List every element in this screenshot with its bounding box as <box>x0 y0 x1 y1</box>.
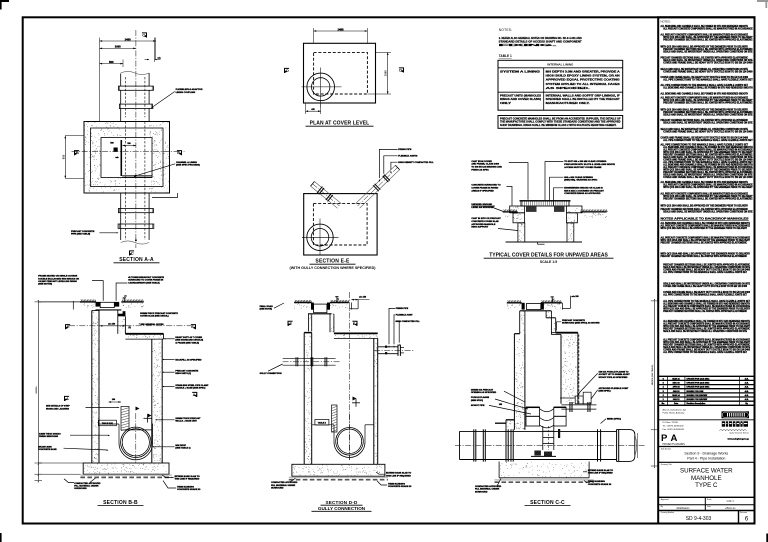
svg-text:WITH QCS 2014 AND SHALL BE APP: WITH QCS 2014 AND SHALL BE APPROVED BY T… <box>661 227 748 230</box>
svg-text:PRECAST CONCRETE: PRECAST CONCRETE <box>562 319 585 322</box>
svg-text:MH DEPTH 3.0M AND GREATER, PRO: MH DEPTH 3.0M AND GREATER, PROVIDE A <box>546 71 620 74</box>
svg-text:PLAN AT COVER LEVEL: PLAN AT COVER LEVEL <box>310 121 370 127</box>
svg-text:CONCRETE BASE: CONCRETE BASE <box>38 448 57 451</box>
svg-text:1 OF 1: 1 OF 1 <box>726 500 734 503</box>
svg-text:COVER FRAME IN PAVED: COVER FRAME IN PAVED <box>471 187 498 190</box>
svg-text:950: 950 <box>61 154 65 159</box>
svg-text:Approved: Approved <box>661 498 669 501</box>
svg-text:(SEE TABLE 1): (SEE TABLE 1) <box>175 447 190 450</box>
svg-text:COVER AND FRAME SHALL BE HEAVY: COVER AND FRAME SHALL BE HEAVY DUTY DUCT… <box>663 130 753 133</box>
svg-text:A.B.: A.B. <box>745 398 749 401</box>
svg-text:SECTION E-E: SECTION E-E <box>315 259 350 265</box>
svg-text:ENGINEERING BRICKS OR CLASS B: ENGINEERING BRICKS OR CLASS B <box>564 186 603 189</box>
svg-text:ALL PIPE CONNECTIONS TO THE MA: ALL PIPE CONNECTIONS TO THE MANHOLE SHAL… <box>663 351 747 354</box>
svg-text:APR 18: APR 18 <box>673 386 681 389</box>
svg-text:PRECAST CONCRETE: PRECAST CONCRETE <box>71 230 95 233</box>
svg-text:D: D <box>399 69 402 73</box>
svg-text:GRADE 20/20: GRADE 20/20 <box>38 445 52 448</box>
svg-text:COVER SLAB (SEE DETAIL): COVER SLAB (SEE DETAIL) <box>140 315 169 318</box>
svg-text:E: E <box>353 322 356 326</box>
svg-text:SURFACE WATER: SURFACE WATER <box>680 468 733 475</box>
svg-text:PRECAST CONCRETE: PRECAST CONCRETE <box>175 369 198 372</box>
svg-text:SECTION C-C: SECTION C-C <box>530 500 565 506</box>
svg-text:PRECAST UNITS (MANHOLES: PRECAST UNITS (MANHOLES <box>500 95 541 98</box>
svg-text:ALL PIPE CONNECTIONS TO THE MA: ALL PIPE CONNECTIONS TO THE MANHOLE SHAL… <box>663 294 747 297</box>
svg-text:APPROVED FLEXIBLE JOINT: APPROVED FLEXIBLE JOINT <box>599 387 630 390</box>
svg-text:MIN DROP: MIN DROP <box>175 445 186 447</box>
svg-text:SEALS AND SHALL BE WATERTIGHT: SEALS AND SHALL BE WATERTIGHT UNDER ALL … <box>663 114 753 117</box>
svg-text:(SEE SPEC PROCESS): (SEE SPEC PROCESS) <box>176 164 200 166</box>
svg-text:600 x 600 CLEAR OPENING: 600 x 600 CLEAR OPENING <box>564 176 593 179</box>
svg-text:(WITH GULLY CONNECTION WHERE S: (WITH GULLY CONNECTION WHERE SPECIFIED) <box>289 266 376 270</box>
svg-text:IRONS AND LADDERS: IRONS AND LADDERS <box>46 407 69 410</box>
svg-text:CONCRETE COVER SLAB: CONCRETE COVER SLAB <box>471 220 499 223</box>
svg-text:HIGH BUILD EPOXY LINING SYSTEM: HIGH BUILD EPOXY LINING SYSTEM, OR AN <box>546 75 620 78</box>
svg-text:SECTION A-A: SECTION A-A <box>119 257 154 263</box>
svg-text:(SEE SPEC): (SEE SPEC) <box>471 400 483 402</box>
svg-text:C: C <box>142 34 145 38</box>
svg-text:TO SUIT 600 x 600 MM CLEAR OPE: TO SUIT 600 x 600 MM CLEAR OPENING <box>564 160 606 163</box>
svg-text:B: B <box>177 151 180 155</box>
svg-text:THIS LINE IF REQUIRED: THIS LINE IF REQUIRED <box>175 479 200 481</box>
svg-text:SURROUND TO COVER FRAME IN: SURROUND TO COVER FRAME IN <box>128 279 163 282</box>
svg-text:SPIGOT PIPE AS SPECIFIED: SPIGOT PIPE AS SPECIFIED <box>599 376 628 379</box>
svg-text:150MM THICK PRECAST: 150MM THICK PRECAST <box>175 417 201 420</box>
svg-text:E: E <box>191 325 194 329</box>
svg-text:500: 500 <box>109 60 114 64</box>
svg-text:(MIN) REQ. GRANTED AS SPEC: (MIN) REQ. GRANTED AS SPEC <box>564 179 597 182</box>
svg-text:PIPE (SEE TABLE): PIPE (SEE TABLE) <box>71 232 90 235</box>
svg-text:A.B.: A.B. <box>745 394 749 397</box>
svg-text:40 TONNE BREAKOUT CONCRETE: 40 TONNE BREAKOUT CONCRETE <box>128 276 164 279</box>
svg-text:PRECAST CHAMBER SECTIONS SHALL: PRECAST CHAMBER SECTIONS SHALL BE JOINTE… <box>661 242 748 245</box>
svg-text:SPECIFIED SHALL BE INSTALLED B: SPECIFIED SHALL BE INSTALLED BY THE PREC… <box>546 98 621 101</box>
svg-text:VARIES (SEE TABLE): VARIES (SEE TABLE) <box>651 365 654 386</box>
svg-text:(SEE SPEC): (SEE SPEC) <box>599 391 611 393</box>
svg-text:SURROUND: SURROUND <box>271 488 284 490</box>
svg-text:FRESH PIPE: FRESH PIPE <box>396 308 409 310</box>
svg-text:PUDDLE FLANGE: PUDDLE FLANGE <box>471 396 490 399</box>
svg-text:COVER AND FRAME SHALL BE HEAVY: COVER AND FRAME SHALL BE HEAVY DUTY DUCT… <box>663 285 747 288</box>
svg-text:Drawing Number: Drawing Number <box>661 512 675 514</box>
svg-text:ONLY: ONLY <box>500 102 512 105</box>
svg-text:Qatar General Tecfcer: Qatar General Tecfcer <box>729 432 749 435</box>
svg-text:PRECAST/IN SITU SLOTS & LEVELL: PRECAST/IN SITU SLOTS & LEVELLING DEVICE <box>564 163 615 166</box>
svg-text:UPDATE FOR QCS 2014: UPDATE FOR QCS 2014 <box>687 377 711 380</box>
svg-text:ISSUED FOR USE: ISSUED FOR USE <box>687 391 705 393</box>
svg-text:ACCEPT UP TO 300MM ADJST: ACCEPT UP TO 300MM ADJST <box>599 373 631 376</box>
svg-text:Sub-Section: Sub-Section <box>661 447 671 450</box>
svg-text:Revision: Revision <box>740 512 747 514</box>
svg-text:MANHOLE: MANHOLE <box>691 475 722 482</box>
svg-text:By: By <box>661 506 663 508</box>
svg-text:1060: 1060 <box>115 45 121 49</box>
svg-text:WITH QCS 2014 AND SHALL BE APP: WITH QCS 2014 AND SHALL BE APPROVED BY T… <box>661 204 749 207</box>
svg-text:LINING COUPLING: LINING COUPLING <box>176 92 196 94</box>
svg-text:150 DIA PUDDLE FLANGE TO: 150 DIA PUDDLE FLANGE TO <box>599 370 629 373</box>
svg-text:Section 9 - Drainage Works: Section 9 - Drainage Works <box>684 451 728 455</box>
svg-text:RING SUPPORT: RING SUPPORT <box>471 227 488 229</box>
svg-text:ALL PIPE CONNECTIONS TO THE MA: ALL PIPE CONNECTIONS TO THE MANHOLE SHAL… <box>663 271 747 274</box>
svg-text:SADDLE + BASE (SEE SPEC): SADDLE + BASE (SEE SPEC) <box>175 387 205 390</box>
svg-text:1060: 1060 <box>384 70 388 76</box>
svg-text:100: 100 <box>112 399 115 401</box>
svg-text:MANUFACTURER ONLY.: MANUFACTURER ONLY. <box>546 102 591 105</box>
svg-text:JAN 13: JAN 13 <box>673 398 681 401</box>
svg-text:150MM THICK PRECAST CONCRETE: 150MM THICK PRECAST CONCRETE <box>140 312 178 315</box>
svg-text:TABLE 1: TABLE 1 <box>499 54 512 58</box>
svg-text:PROJECTS AFFAIRS: PROJECTS AFFAIRS <box>663 443 686 446</box>
svg-text:DOUBLE BULLNOSED ENG BRICKS OR: DOUBLE BULLNOSED ENG BRICKS OR <box>38 278 79 280</box>
svg-text:75MM BLINDING: 75MM BLINDING <box>177 486 194 488</box>
svg-text:AREAS IF SPECIFIED: AREAS IF SPECIFIED <box>471 189 494 192</box>
svg-text:WITH QCS 2014 AND SHALL BE APP: WITH QCS 2014 AND SHALL BE APPROVED BY T… <box>663 186 753 189</box>
svg-text:HIGH DENSITY COMPACTED FILL: HIGH DENSITY COMPACTED FILL <box>398 161 434 164</box>
svg-text:SECTION B-B: SECTION B-B <box>103 500 138 506</box>
svg-text:D: D <box>286 69 289 73</box>
svg-text:BEND (SPEC): BEND (SPEC) <box>607 418 621 420</box>
svg-text:FINISH BENCHING: FINISH BENCHING <box>39 436 58 438</box>
svg-text:COVER AND FRAME SHALL BE HEAVY: COVER AND FRAME SHALL BE HEAVY DUTY DUCT… <box>663 70 753 73</box>
svg-text:SEALS AND SHALL BE WATERTIGHT: SEALS AND SHALL BE WATERTIGHT UNDER ALL … <box>663 330 747 333</box>
svg-text:RING UNITS (1): RING UNITS (1) <box>175 373 191 375</box>
svg-text:FLEXIBLE JOINT: FLEXIBLE JOINT <box>396 315 413 317</box>
svg-text:W: W <box>124 294 127 298</box>
svg-text:Public Works Authority: Public Works Authority <box>663 412 686 415</box>
svg-text:UPDATE FOR QCS 2014: UPDATE FOR QCS 2014 <box>687 381 711 384</box>
svg-text:FRAME SEATED ON SINGLE COURSE: FRAME SEATED ON SINGLE COURSE <box>38 275 77 278</box>
svg-text:CONCRETE GRADE 20: CONCRETE GRADE 20 <box>177 488 201 491</box>
svg-text:VARIES: VARIES <box>35 386 38 394</box>
svg-text:UNPAVED GROUND: UNPAVED GROUND <box>471 203 492 206</box>
svg-text:GULLY CONNECTION: GULLY CONNECTION <box>260 373 282 375</box>
svg-text:FLEXIBLE/FLG ADAPTOR: FLEXIBLE/FLG ADAPTOR <box>176 88 203 91</box>
svg-text:PRECAST CHAMBER SECTIONS SHALL: PRECAST CHAMBER SECTIONS SHALL BE JOINTE… <box>663 310 747 313</box>
svg-text:EXTEND BASE SLAB TO: EXTEND BASE SLAB TO <box>386 472 412 475</box>
svg-text:COMPACTED APPROVED: COMPACTED APPROVED <box>74 482 101 485</box>
svg-text:EXTEND BASE SLAB TO: EXTEND BASE SLAB TO <box>588 469 614 472</box>
svg-text:SEALS AND SHALL BE WATERTIGHT: SEALS AND SHALL BE WATERTIGHT UNDER ALL … <box>663 211 753 214</box>
svg-text:RINGS AND COVER SLABS): RINGS AND COVER SLABS) <box>500 98 541 101</box>
svg-text:(1): (1) <box>129 327 132 329</box>
svg-text:FILL MATERIAL UNDER: FILL MATERIAL UNDER <box>271 484 296 487</box>
svg-text:min: min <box>115 157 118 159</box>
svg-text:FLEXIBLE JOINTS: FLEXIBLE JOINTS <box>398 156 418 158</box>
svg-text:SEE DETAILS OF STEP: SEE DETAILS OF STEP <box>46 405 70 408</box>
svg-text:* SEE GENERAL NOTES: * SEE GENERAL NOTES <box>139 323 164 326</box>
svg-text:ON M/C PRECAST LEVELLING RINGS: ON M/C PRECAST LEVELLING RINGS <box>38 280 77 283</box>
svg-text:& FRAME (SEE TABLE): & FRAME (SEE TABLE) <box>175 341 199 344</box>
svg-text:ISSUED FOR REVIEW: ISSUED FOR REVIEW <box>687 395 708 397</box>
svg-text:150: 150 <box>499 404 502 406</box>
svg-text:min 150: min 150 <box>359 297 366 299</box>
svg-text:Drawing Title: Drawing Title <box>661 463 672 466</box>
svg-text:EXTEND BASE SLAB TO: EXTEND BASE SLAB TO <box>175 475 201 478</box>
svg-text:CONCRETE SURROUND TO: CONCRETE SURROUND TO <box>471 185 500 187</box>
svg-text:Tel.: 00974 44950000: Tel.: 00974 44950000 <box>663 426 685 428</box>
svg-text:150MM DIA PRECAST: 150MM DIA PRECAST <box>471 388 494 391</box>
svg-text:FIXING.: FIXING. <box>499 44 559 47</box>
svg-text:ALL BENCHING AND CHANNELS SHAL: ALL BENCHING AND CHANNELS SHALL BE FORME… <box>663 87 753 90</box>
svg-text:Part 4 - Pipe Installation: Part 4 - Pipe Installation <box>687 457 725 461</box>
svg-text:HEAVY DUTY 40 T COVER: HEAVY DUTY 40 T COVER <box>175 336 202 339</box>
svg-text:75MM BLINDING: 75MM BLINDING <box>388 483 405 485</box>
svg-text:FILL MATERIAL UNDER: FILL MATERIAL UNDER <box>74 485 99 488</box>
svg-text:75MM BLINDING: 75MM BLINDING <box>588 481 605 483</box>
svg-text:PRECAST CHAMBER SECTIONS SHALL: PRECAST CHAMBER SECTIONS SHALL BE JOINTE… <box>663 38 753 41</box>
svg-text:APPROVED EQUAL PROTECTIVE COAT: APPROVED EQUAL PROTECTIVE COATING <box>546 79 620 82</box>
svg-text:Scale: Scale <box>707 499 712 501</box>
svg-text:min 150: min 150 <box>108 323 115 325</box>
svg-text:B: B <box>76 151 79 155</box>
svg-text:STAINLESS STEEL PIPE CLAMP: STAINLESS STEEL PIPE CLAMP <box>175 384 209 387</box>
svg-text:THIS LINE IF REQUIRED: THIS LINE IF REQUIRED <box>588 473 613 475</box>
svg-text:SEALS AND SHALL BE WATERTIGHT: SEALS AND SHALL BE WATERTIGHT UNDER ALL … <box>663 51 753 54</box>
svg-text:MAR 21: MAR 21 <box>672 377 680 380</box>
svg-text:DEC 19: DEC 19 <box>673 382 681 384</box>
svg-text:SURROUND: SURROUND <box>74 488 87 490</box>
svg-text:CHANNEL & LINING: CHANNEL & LINING <box>176 161 197 164</box>
svg-text:A.B.: A.B. <box>745 386 749 389</box>
svg-text:AND FRAME, CLASS D400: AND FRAME, CLASS D400 <box>471 163 499 166</box>
svg-text:SYSTEM APPLIED TO ALL INTERNAL: SYSTEM APPLIED TO ALL INTERNAL FACES <box>546 83 621 86</box>
svg-text:SURROUND (SEE SPEC) AS SHOWN: SURROUND (SEE SPEC) AS SHOWN <box>562 322 600 325</box>
svg-text:FILL MATERIAL UNDER: FILL MATERIAL UNDER <box>475 488 500 491</box>
svg-text:CONCRETE RINGS AS APPROVED: CONCRETE RINGS AS APPROVED <box>564 192 601 195</box>
svg-text:TYPE C: TYPE C <box>695 482 718 489</box>
svg-text:CAST IRON COVER: CAST IRON COVER <box>471 160 492 163</box>
svg-text:CONCRETE GRADE 20: CONCRETE GRADE 20 <box>388 485 412 488</box>
svg-text:NOTES APPLICABLE TO BACKDROP M: NOTES APPLICABLE TO BACKDROP MANHOLES <box>661 217 750 220</box>
svg-text:MIN 2 MAX 4 COURSES OR PRECAST: MIN 2 MAX 4 COURSES OR PRECAST <box>564 189 604 192</box>
svg-text:ALL PIPE CONNECTIONS TO THE MA: ALL PIPE CONNECTIONS TO THE MANHOLE SHAL… <box>663 79 753 82</box>
svg-text:NOTES:: NOTES: <box>661 19 671 23</box>
svg-text:1480: 1480 <box>338 27 344 31</box>
svg-text:Modification: Modification <box>677 507 690 510</box>
svg-text:JAN 16: JAN 16 <box>673 390 681 393</box>
svg-text:GULLY CONNECTION: GULLY CONNECTION <box>318 506 366 511</box>
svg-text:COVER AND FRAME SHALL BE HEAVY: COVER AND FRAME SHALL BE HEAVY DUTY DUCT… <box>663 62 753 65</box>
svg-text:ALL PIPE CONNECTIONS TO THE MA: ALL PIPE CONNECTIONS TO THE MANHOLE SHAL… <box>663 139 753 142</box>
svg-text:TABLE 1(A): TABLE 1(A) <box>102 422 113 425</box>
svg-text:CAST IN SITU OR PRECAST: CAST IN SITU OR PRECAST <box>471 217 501 220</box>
svg-text:12MM THICK GRANO: 12MM THICK GRANO <box>39 432 61 435</box>
svg-text:P.O.Box: 22188: P.O.Box: 22188 <box>663 422 679 424</box>
svg-text:+35cm an: +35cm an <box>725 507 736 510</box>
svg-text:Fax: 00974 44950099: Fax: 00974 44950099 <box>663 429 685 431</box>
svg-text:www.ashghal.gov.qa: www.ashghal.gov.qa <box>727 439 749 441</box>
svg-text:SPIGOT PIPE: SPIGOT PIPE <box>471 405 485 407</box>
svg-text:P A: P A <box>661 433 678 444</box>
svg-text:A: A <box>193 393 196 397</box>
svg-text:(SEE NOTE): (SEE NOTE) <box>260 309 273 311</box>
svg-text:COMPACTED APPROVED: COMPACTED APPROVED <box>271 481 298 484</box>
svg-text:min 150: min 150 <box>572 296 579 298</box>
svg-text:SYSTEM A LINING: SYSTEM A LINING <box>500 71 540 74</box>
svg-text:A.B.: A.B. <box>745 381 749 384</box>
svg-text:A: A <box>66 397 69 401</box>
svg-text:UPDATE FOR QCS 2014: UPDATE FOR QCS 2014 <box>687 386 711 389</box>
svg-text:PRECAST CHAMBER SECTIONS SHALL: PRECAST CHAMBER SECTIONS SHALL BE JOINTE… <box>661 255 748 258</box>
svg-text:FRESH PIPE: FRESH PIPE <box>398 149 412 151</box>
svg-text:FIXING AS SPEC: FIXING AS SPEC <box>471 169 489 172</box>
svg-text:THIS LINE IF REQUIRED: THIS LINE IF REQUIRED <box>386 475 411 477</box>
svg-text:ACCESS SUPPORT COVER FRAME: ACCESS SUPPORT COVER FRAME <box>564 166 602 169</box>
svg-text:(SEE NOTES): (SEE NOTES) <box>38 284 52 286</box>
svg-text:SEALS AND SHALL BE WATERTIGHT: SEALS AND SHALL BE WATERTIGHT UNDER ALL … <box>663 122 753 125</box>
svg-text:(SEE STANDARD DETAILS): (SEE STANDARD DETAILS) <box>175 339 203 342</box>
svg-text:TO BS EN 124 BEDDING AND: TO BS EN 124 BEDDING AND <box>471 166 502 169</box>
svg-text:MAR 14: MAR 14 <box>672 394 680 397</box>
svg-text:CARRIAGEWAYS (SEE TABLE): CARRIAGEWAYS (SEE TABLE) <box>128 281 160 284</box>
svg-text:INTERNAL LINING: INTERNAL LINING <box>547 62 574 66</box>
svg-text:CONCRETE GRADE 20: CONCRETE GRADE 20 <box>588 483 612 486</box>
svg-text:PRECAST CHAMBER SECTIONS SHALL: PRECAST CHAMBER SECTIONS SHALL BE JOINTE… <box>663 198 753 201</box>
svg-text:TYPICAL COVER DETAILS FOR UNPA: TYPICAL COVER DETAILS FOR UNPAVED AREAS <box>489 253 608 259</box>
svg-text:SHOP DRAWINGS. RINGS SHALL BE: SHOP DRAWINGS. RINGS SHALL BE MINIMUM CL… <box>500 124 617 127</box>
svg-text:WALLS + BASE UNIT: WALLS + BASE UNIT <box>175 420 197 423</box>
svg-text:BACKFILL AS SPECIFIED: BACKFILL AS SPECIFIED <box>175 358 201 361</box>
svg-text:SD 9-4-303: SD 9-4-303 <box>686 516 712 522</box>
svg-text:ALL BENCHING AND CHANNELS SHAL: ALL BENCHING AND CHANNELS SHALL BE FORME… <box>661 92 749 95</box>
svg-text:min: min <box>158 57 161 59</box>
svg-text:OPENING AS SPECIFIED: OPENING AS SPECIFIED <box>471 391 497 394</box>
svg-text:A.B.: A.B. <box>745 377 749 380</box>
svg-text:APPROVED MANHOLE: APPROVED MANHOLE <box>471 223 495 226</box>
svg-text:AS SPECIFIED.: AS SPECIFIED. <box>546 87 591 90</box>
svg-text:1480: 1480 <box>125 37 131 41</box>
svg-text:COVER AND FRAME SHALL BE HEAVY: COVER AND FRAME SHALL BE HEAVY DUTY DUCT… <box>663 176 753 179</box>
svg-text:A.B.: A.B. <box>745 390 749 393</box>
svg-text:C: C <box>131 252 134 256</box>
svg-text:Aluesh_Subsidiaries dpt: Aluesh_Subsidiaries dpt <box>663 409 687 412</box>
svg-text:TABLE 1: TABLE 1 <box>318 421 327 424</box>
svg-text:ISSUED FOR REVIEW: ISSUED FOR REVIEW <box>687 399 708 401</box>
svg-text:PRECAST CHAMBER SECTIONS SHALL: PRECAST CHAMBER SECTIONS SHALL BE JOINTE… <box>663 101 753 104</box>
svg-text:SECTION D-D: SECTION D-D <box>325 500 358 505</box>
svg-text:Date: Date <box>707 505 711 508</box>
svg-text:SURROUND: SURROUND <box>475 491 488 493</box>
svg-text:FINAL ROAD: FINAL ROAD <box>260 305 274 308</box>
svg-text:SCALE 1:5: SCALE 1:5 <box>540 260 557 264</box>
svg-text:ALL PRECAST CONCRETE COMPONENT: ALL PRECAST CONCRETE COMPONENTS SHALL BE… <box>663 28 753 31</box>
svg-text:NOTES:: NOTES: <box>499 28 513 32</box>
svg-text:INTERNAL WALLS AND SOFFIT GRP: INTERNAL WALLS AND SOFFIT GRP LININGS, I… <box>546 95 621 98</box>
